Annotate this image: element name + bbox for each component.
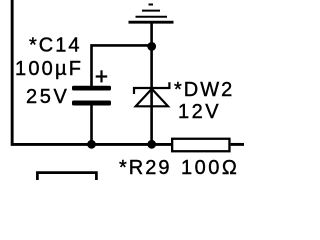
svg-text:*R29: *R29	[119, 157, 171, 179]
node C junction bottom right	[147, 140, 156, 149]
node B junction bottom left	[87, 140, 96, 149]
wire capacitor bottom	[90, 105, 93, 144]
wire left net vertical + bottom horizontal	[12, 0, 171, 144]
wire bottom right from resistor to edge	[231, 143, 244, 146]
svg-text:25V: 25V	[26, 86, 69, 108]
svg-text:12V: 12V	[178, 101, 221, 123]
svg-text:100µF: 100µF	[15, 58, 83, 80]
capacitor C14	[72, 86, 111, 106]
zener diode DW2	[134, 82, 169, 106]
capacitor C14 polarity plus	[96, 70, 108, 82]
component box bottom	[37, 173, 96, 180]
node A junction top	[147, 42, 156, 51]
svg-text:*C14: *C14	[29, 35, 81, 57]
svg-text:100Ω: 100Ω	[181, 157, 239, 179]
wire capacitor top to node A	[92, 45, 152, 86]
resistor R29	[172, 139, 229, 152]
ground	[129, 5, 174, 23]
wire ground stem through zener	[150, 22, 153, 145]
svg-text:*DW2: *DW2	[174, 79, 234, 101]
